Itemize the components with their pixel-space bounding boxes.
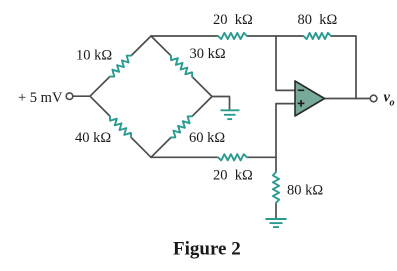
wire 20k bottom to node B: [247, 156, 276, 158]
wire top node to 20k: [151, 35, 218, 37]
resistor 10 kOhm zigzag: [110, 56, 131, 77]
resistor 20 kOhm bottom zigzag: [218, 154, 247, 160]
svg-text:60 kΩ: 60 kΩ: [189, 130, 225, 146]
output terminal circle: [370, 95, 377, 102]
svg-text:40 kΩ: 40 kΩ: [75, 130, 111, 146]
svg-text:+ 5 mV: + 5 mV: [18, 90, 63, 106]
wire input to left node: [73, 95, 90, 97]
wire bridge upper-right diagonal (30k): [151, 36, 171, 56]
wire 80k vertical to ground: [275, 203, 277, 219]
wire node A down to inverting input: [276, 36, 295, 90]
resistor 40 kOhm zigzag: [110, 116, 131, 137]
resistor 80 kOhm top zigzag: [304, 33, 332, 39]
svg-text:30 kΩ: 30 kΩ: [190, 46, 226, 62]
input terminal circle: [66, 93, 73, 100]
svg-text:80 kΩ: 80 kΩ: [298, 12, 338, 28]
ground bottom (80k vertical): [266, 219, 287, 227]
wire bridge upper-left diagonal (10k): [90, 77, 110, 97]
ground middle (bridge right node): [221, 110, 240, 119]
resistor 20 kOhm top zigzag: [218, 33, 247, 39]
wire bridge right node to ground: [212, 97, 230, 111]
wire bottom node to 20k bottom: [151, 156, 218, 158]
wire noninverting input to node B: [276, 104, 295, 158]
svg-text:80 kΩ: 80 kΩ: [287, 183, 323, 199]
wire bridge lower-left diagonal (40k): [90, 96, 110, 116]
svg-text:Figure 2: Figure 2: [173, 239, 241, 260]
wire node A to 80k: [276, 35, 304, 37]
svg-text:20 kΩ: 20 kΩ: [213, 12, 253, 28]
resistor 30 kOhm zigzag: [171, 56, 192, 77]
svg-text:o: o: [390, 98, 395, 109]
wire node B down to 80k vertical: [275, 157, 277, 172]
wire op-amp output: [325, 98, 371, 100]
resistor 80 kOhm vertical zigzag: [273, 172, 279, 203]
wire 80k to feedback corner: [331, 36, 356, 99]
svg-text:20 kΩ: 20 kΩ: [213, 168, 253, 184]
wire 20k to node A: [247, 35, 276, 37]
op-amp U1: [295, 81, 325, 116]
svg-text:10 kΩ: 10 kΩ: [76, 48, 112, 64]
wire bridge lower-right diagonal (60k): [151, 138, 171, 158]
resistor 60 kOhm zigzag: [171, 116, 192, 137]
